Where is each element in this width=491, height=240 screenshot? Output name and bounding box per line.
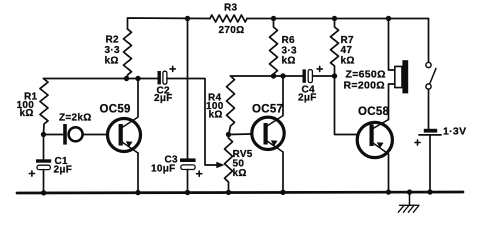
svg-text:Z=2kΩ: Z=2kΩ: [59, 113, 92, 124]
wire OC57 collector up: [282, 76, 284, 116]
resistor R7: [331, 19, 339, 77]
svg-text:OC59: OC59: [100, 104, 131, 116]
wire OC58 emitter down: [388, 154, 390, 192]
ground rail dot C1: [41, 190, 46, 195]
wire C4/R7 node down to OC58 base: [335, 76, 358, 135]
svg-text:OC58: OC58: [358, 106, 390, 118]
node rail dot top C3 branch: [185, 16, 190, 21]
node R6 bottom: [271, 73, 276, 78]
node A dot R2 bottom: [124, 76, 129, 81]
wire earpiece top lead from rail: [389, 19, 395, 71]
ground rail dot chassis: [407, 189, 412, 194]
ground rail dot C3: [185, 190, 190, 195]
resistor R3: [210, 15, 247, 22]
svg-text:OC57: OC57: [252, 104, 283, 116]
svg-text:R6: R6: [282, 35, 296, 46]
svg-text:R2: R2: [106, 35, 120, 46]
capacitor C1: [29, 135, 51, 193]
ground chassis symbol: [398, 192, 419, 212]
svg-text:1·3V: 1·3V: [443, 125, 466, 137]
wire supply line down to C3: [187, 19, 189, 159]
resistor R6: [270, 19, 278, 77]
potentiometer RV5: [225, 135, 233, 193]
wire microphone to OC59 base: [83, 134, 107, 136]
earpiece Z=650 R=200: [395, 60, 408, 93]
transistor Q1 OC59: [108, 117, 141, 153]
resistor R2: [124, 29, 132, 78]
wire C2 right toward RV5 wiper: [167, 79, 218, 166]
ground rail dot OC58 emitter: [386, 189, 391, 194]
wire bottom ground rail: [17, 192, 463, 193]
wire OC59 collector up to node A: [137, 79, 139, 118]
svg-text:47: 47: [341, 45, 353, 56]
node R4 / RV5 / OC57 base: [226, 132, 231, 137]
svg-text:kΩ: kΩ: [105, 56, 119, 67]
node A dot collector branch: [135, 76, 140, 81]
svg-text:kΩ: kΩ: [282, 56, 296, 67]
wiper arrow into RV5: [216, 162, 224, 169]
wire top supply rail left section: [128, 18, 211, 29]
svg-text:kΩ: kΩ: [209, 109, 223, 120]
wire OC59 emitter down to ground rail: [137, 153, 139, 192]
ground rail dot OC59 emitter: [135, 190, 140, 195]
node rail dot R7: [332, 16, 337, 21]
ground rail dot OC57 emitter: [280, 190, 285, 195]
svg-text:2μF: 2μF: [298, 93, 317, 104]
switch S1: [426, 62, 436, 89]
wire OC57 base: [229, 133, 251, 136]
node rail dot R6: [271, 16, 276, 21]
svg-text:10μF: 10μF: [151, 164, 176, 175]
resistor R1: [40, 79, 48, 135]
svg-text:kΩ: kΩ: [341, 56, 355, 67]
transistor Q2 OC57: [252, 116, 284, 152]
svg-text:kΩ: kΩ: [20, 108, 34, 119]
transistor Q3 OC58: [357, 120, 392, 158]
svg-text:2μF: 2μF: [154, 93, 173, 104]
wire earpiece bottom lead to OC58 collector: [389, 84, 395, 120]
capacitor C3: [180, 158, 202, 192]
wire node A horizontal (R1 top / R2 bottom / C2 left / OC59 collector): [44, 78, 158, 80]
wire top supply rail right section: [247, 19, 429, 63]
svg-text:R3: R3: [224, 3, 238, 14]
wire microphone to base node: [44, 134, 64, 136]
resistor R4: [227, 76, 235, 135]
wire R4 top to collector node of OC57: [231, 75, 303, 77]
svg-text:3·3: 3·3: [105, 45, 120, 56]
svg-text:R=200Ω: R=200Ω: [344, 80, 385, 92]
wire battery to ground rail: [429, 135, 431, 192]
svg-text:kΩ: kΩ: [233, 168, 247, 179]
capacitor C2: [158, 66, 176, 84]
svg-text:2μF: 2μF: [54, 165, 73, 176]
ground rail dot battery: [427, 189, 432, 194]
wire OC57 emitter down: [282, 152, 284, 192]
battery 1.3V: [415, 129, 441, 145]
node rail dot earpiece: [386, 16, 391, 21]
svg-text:270Ω: 270Ω: [219, 25, 245, 36]
wire switch to battery: [428, 89, 430, 129]
node R1/mic/C1: [41, 132, 46, 137]
node C4 / R7 / OC58 base: [332, 73, 337, 78]
ground rail dot RV5: [226, 190, 231, 195]
capacitor C4: [303, 66, 335, 83]
microphone Z=2k earpiece symbol: [63, 124, 82, 145]
node OC57 collector / C4: [280, 73, 285, 78]
